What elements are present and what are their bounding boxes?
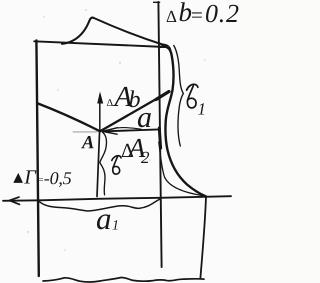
svg-text:b: b: [179, 0, 193, 27]
svg-text:Δ: Δ: [107, 98, 114, 109]
svg-text:-0,5: -0,5: [44, 168, 72, 188]
svg-text:2: 2: [141, 148, 150, 167]
svg-text:1: 1: [112, 218, 119, 233]
svg-text:Δ: Δ: [166, 7, 177, 26]
svg-text:=: =: [191, 3, 203, 27]
svg-text:0.2: 0.2: [205, 0, 239, 28]
svg-text:Γ: Γ: [23, 166, 37, 188]
svg-text:A: A: [81, 133, 94, 153]
svg-text:1: 1: [198, 100, 207, 119]
svg-text:a: a: [96, 201, 112, 236]
svg-text:a: a: [137, 101, 152, 134]
